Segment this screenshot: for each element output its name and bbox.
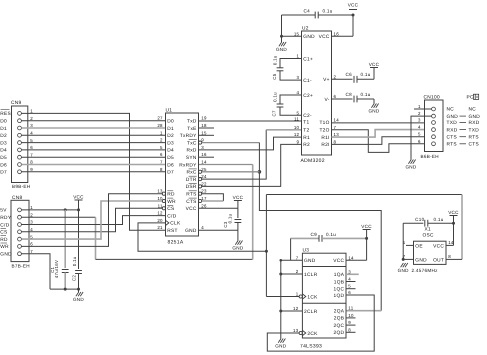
svg-text:23: 23 (201, 189, 207, 194)
svg-text:74LS393: 74LS393 (300, 344, 322, 350)
svg-text:0.1u: 0.1u (323, 9, 333, 14)
svg-text:RST: RST (167, 228, 178, 234)
svg-text:5: 5 (30, 138, 33, 143)
svg-text:0.1u: 0.1u (326, 232, 336, 237)
svg-text:D0: D0 (167, 119, 174, 125)
svg-text:C8: C8 (346, 92, 353, 97)
svg-text:RXD: RXD (469, 120, 480, 126)
svg-text:VCC: VCC (73, 194, 84, 199)
svg-text:GND: GND (276, 47, 287, 52)
svg-text:5V: 5V (0, 208, 7, 214)
svg-text:C/D: C/D (0, 222, 9, 228)
svg-text:C2+: C2+ (303, 93, 313, 99)
svg-text:OE: OE (415, 243, 423, 249)
svg-text:25: 25 (201, 167, 207, 172)
svg-text:D7: D7 (167, 170, 174, 176)
svg-text:PC: PC (467, 95, 474, 101)
svg-text:DSR: DSR (186, 184, 197, 190)
svg-text:2: 2 (30, 212, 33, 217)
svg-text:0.1u: 0.1u (272, 55, 277, 65)
svg-text:2: 2 (30, 116, 33, 121)
svg-text:10: 10 (348, 313, 354, 318)
svg-text:1: 1 (296, 292, 299, 297)
svg-text:T1: T1 (303, 120, 309, 126)
svg-text:GND: GND (368, 109, 379, 114)
svg-text:5: 5 (348, 284, 351, 289)
svg-text:4: 4 (30, 227, 33, 232)
svg-text:12: 12 (294, 132, 300, 137)
svg-text:27: 27 (157, 116, 163, 121)
svg-text:DTR: DTR (186, 177, 197, 183)
svg-text:C7: C7 (271, 110, 276, 116)
svg-text:VCC: VCC (333, 258, 344, 264)
svg-text:TXD: TXD (469, 127, 480, 133)
svg-text:GND: GND (469, 114, 481, 120)
svg-text:D2: D2 (167, 133, 174, 139)
svg-text:VCC: VCC (348, 3, 359, 8)
svg-text:TxRDY: TxRDY (180, 133, 197, 139)
svg-text:U2: U2 (302, 26, 309, 32)
svg-text:WR: WR (167, 199, 176, 205)
svg-text:CS: CS (0, 230, 7, 236)
svg-text:15: 15 (201, 130, 207, 135)
svg-text:0.1u: 0.1u (361, 72, 371, 77)
svg-text:OSC: OSC (423, 233, 435, 239)
svg-text:5: 5 (160, 145, 163, 150)
svg-text:20: 20 (157, 218, 163, 223)
svg-text:D1: D1 (0, 126, 7, 132)
svg-text:U1: U1 (166, 108, 173, 114)
svg-text:24: 24 (201, 174, 207, 179)
svg-text:RD: RD (167, 192, 175, 198)
svg-text:CLK: CLK (170, 221, 181, 227)
svg-text:0.1u: 0.1u (228, 213, 233, 223)
svg-text:1: 1 (418, 104, 421, 109)
svg-text:D4: D4 (0, 148, 7, 154)
svg-text:0.1u: 0.1u (361, 92, 371, 97)
svg-text:6: 6 (30, 145, 33, 150)
svg-text:2CLR: 2CLR (304, 309, 318, 315)
svg-text:7: 7 (30, 152, 33, 157)
svg-text:R1I: R1I (321, 135, 329, 141)
svg-text:3: 3 (297, 75, 300, 80)
svg-text:D3: D3 (0, 140, 7, 146)
svg-text:GND: GND (415, 257, 427, 263)
svg-text:RxC: RxC (186, 170, 196, 176)
svg-text:1CK: 1CK (307, 294, 318, 300)
svg-text:16: 16 (334, 31, 340, 36)
svg-text:1CLR: 1CLR (304, 272, 318, 278)
svg-text:CN100: CN100 (424, 95, 440, 101)
svg-text:16: 16 (201, 152, 207, 157)
svg-text:T1O: T1O (319, 120, 329, 126)
svg-text:3: 3 (201, 145, 204, 150)
svg-text:VCC: VCC (448, 210, 459, 215)
svg-text:2.4576MHz: 2.4576MHz (412, 268, 439, 273)
svg-text:1: 1 (297, 54, 300, 59)
svg-text:VCC: VCC (186, 206, 197, 212)
svg-text:6: 6 (334, 94, 337, 99)
svg-text:VCC: VCC (361, 224, 372, 229)
svg-text:RTS: RTS (469, 134, 479, 140)
svg-text:V+: V+ (323, 77, 330, 83)
svg-text:B9B-EH: B9B-EH (12, 184, 30, 189)
svg-text:15: 15 (294, 31, 300, 36)
svg-text:2: 2 (160, 138, 163, 143)
svg-text:D7: D7 (0, 170, 7, 176)
svg-text:NC: NC (447, 107, 455, 113)
svg-text:CTS: CTS (469, 142, 480, 148)
svg-text:5: 5 (418, 132, 421, 137)
svg-text:RTS: RTS (186, 192, 196, 198)
svg-text:10: 10 (294, 125, 300, 130)
svg-text:GND: GND (447, 114, 459, 120)
svg-text:VCC: VCC (433, 243, 444, 249)
svg-text:8: 8 (160, 167, 163, 172)
svg-text:R2I: R2I (321, 142, 329, 148)
svg-text:1: 1 (30, 109, 33, 114)
svg-text:1QB: 1QB (334, 279, 345, 285)
svg-text:3: 3 (418, 118, 421, 123)
svg-text:GND: GND (275, 344, 286, 349)
svg-text:GND: GND (398, 268, 409, 273)
svg-text:R2: R2 (303, 142, 310, 148)
svg-text:8: 8 (448, 254, 451, 259)
svg-text:D0: D0 (0, 119, 7, 125)
svg-text:12: 12 (293, 306, 299, 311)
svg-text:1QC: 1QC (334, 287, 345, 293)
svg-text:4: 4 (348, 277, 351, 282)
svg-text:7: 7 (334, 125, 337, 130)
svg-text:2: 2 (334, 74, 337, 79)
svg-text:R1: R1 (303, 135, 310, 141)
svg-text:C6: C6 (346, 72, 353, 77)
svg-text:ADM3202: ADM3202 (301, 158, 325, 164)
svg-text:D5: D5 (167, 155, 174, 161)
svg-text:D6: D6 (167, 162, 174, 168)
svg-text:2QA: 2QA (334, 309, 345, 315)
svg-text:17: 17 (201, 196, 207, 201)
svg-text:GND: GND (304, 258, 316, 264)
svg-text:4: 4 (30, 131, 33, 136)
svg-text:21: 21 (157, 225, 163, 230)
svg-text:C4: C4 (304, 9, 311, 14)
svg-text:C2-: C2- (303, 113, 312, 119)
svg-text:2: 2 (296, 269, 299, 274)
svg-text:6: 6 (418, 139, 421, 144)
svg-text:12: 12 (157, 211, 163, 216)
svg-text:1QD: 1QD (334, 293, 345, 299)
svg-text:VCC: VCC (233, 195, 244, 200)
svg-text:14: 14 (348, 255, 354, 260)
svg-text:WR: WR (0, 244, 9, 250)
svg-text:14: 14 (201, 160, 207, 165)
svg-text:CN9: CN9 (11, 100, 22, 106)
svg-text:GND: GND (405, 165, 416, 170)
svg-text:6: 6 (30, 242, 33, 247)
svg-text:7: 7 (30, 249, 33, 254)
svg-text:8251A: 8251A (168, 240, 184, 246)
svg-text:RXD: RXD (447, 127, 458, 133)
svg-text:D4: D4 (167, 148, 174, 154)
svg-text:4: 4 (201, 225, 204, 230)
svg-text:18: 18 (201, 123, 207, 128)
svg-text:D5: D5 (0, 155, 7, 161)
svg-text:22: 22 (201, 181, 207, 186)
svg-text:3: 3 (30, 220, 33, 225)
svg-text:RES: RES (0, 111, 11, 117)
svg-text:5: 5 (297, 110, 300, 115)
svg-text:7: 7 (160, 160, 163, 165)
svg-text:13: 13 (293, 328, 299, 333)
svg-text:TxE: TxE (187, 126, 196, 132)
svg-text:D6: D6 (0, 162, 7, 168)
svg-text:VCC: VCC (319, 34, 330, 40)
svg-text:D1: D1 (167, 126, 174, 132)
svg-text:11: 11 (348, 306, 353, 311)
svg-text:9: 9 (297, 139, 300, 144)
svg-text:GND: GND (73, 297, 84, 302)
svg-text:6: 6 (348, 290, 351, 295)
svg-text:8: 8 (334, 139, 337, 144)
svg-text:SYN: SYN (186, 155, 197, 161)
svg-text:0.1u: 0.1u (72, 256, 77, 266)
svg-text:RxD: RxD (186, 148, 196, 154)
svg-text:D3: D3 (167, 140, 174, 146)
svg-text:0.1u: 0.1u (434, 217, 444, 222)
svg-text:OUT: OUT (433, 257, 444, 263)
svg-text:7: 7 (296, 255, 299, 260)
svg-text:2QD: 2QD (334, 330, 345, 336)
svg-text:1: 1 (30, 205, 33, 210)
svg-text:4: 4 (418, 125, 421, 130)
svg-text:26: 26 (201, 203, 207, 208)
svg-text:2: 2 (418, 111, 421, 116)
svg-text:TxC: TxC (187, 140, 197, 146)
svg-text:B7B-EH: B7B-EH (12, 264, 30, 269)
svg-text:4: 4 (297, 90, 300, 95)
svg-text:CS: CS (167, 206, 174, 212)
svg-text:6: 6 (160, 152, 163, 157)
svg-text:C5: C5 (272, 73, 277, 79)
svg-text:2QB: 2QB (334, 316, 345, 322)
svg-text:9: 9 (30, 167, 33, 172)
svg-text:0.1u: 0.1u (272, 92, 277, 102)
svg-text:TXD: TXD (447, 120, 458, 126)
svg-text:1: 1 (160, 130, 163, 135)
svg-text:GND: GND (185, 228, 197, 234)
svg-text:C3: C3 (223, 221, 228, 227)
svg-text:C1+: C1+ (303, 56, 313, 62)
svg-text:T2O: T2O (319, 128, 329, 134)
svg-text:1QA: 1QA (334, 272, 345, 278)
svg-text:19: 19 (201, 116, 207, 121)
svg-text:9: 9 (348, 320, 351, 325)
svg-text:B6B-EH: B6B-EH (421, 154, 439, 159)
svg-text:RDY: RDY (0, 215, 12, 221)
svg-text:CTS: CTS (447, 134, 458, 140)
svg-text:CTS: CTS (186, 199, 197, 205)
svg-text:VCC: VCC (369, 62, 380, 67)
svg-text:U3: U3 (303, 248, 310, 254)
svg-text:2CK: 2CK (307, 331, 318, 337)
svg-text:C/D: C/D (167, 213, 176, 219)
svg-text:GND: GND (303, 34, 315, 40)
svg-text:14: 14 (334, 117, 340, 122)
svg-text:C9: C9 (311, 232, 318, 237)
svg-text:RD: RD (0, 237, 8, 243)
svg-text:2QC: 2QC (334, 323, 345, 329)
svg-text:TxD: TxD (187, 119, 197, 125)
svg-text:RTS: RTS (447, 142, 457, 148)
svg-text:C1-: C1- (303, 78, 312, 84)
svg-text:GND: GND (0, 252, 12, 258)
svg-text:T2: T2 (303, 128, 309, 134)
svg-text:D2: D2 (0, 133, 7, 139)
svg-text:28: 28 (157, 123, 163, 128)
svg-text:X1: X1 (425, 227, 431, 233)
svg-text:8: 8 (348, 327, 351, 332)
svg-text:47u/16V: 47u/16V (54, 260, 59, 278)
svg-text:CN8: CN8 (12, 195, 23, 201)
svg-text:NC: NC (469, 107, 477, 113)
svg-text:11: 11 (294, 117, 299, 122)
svg-text:C10: C10 (415, 217, 424, 222)
svg-text:V-: V- (325, 97, 330, 103)
svg-text:C2: C2 (72, 275, 77, 281)
svg-text:GND: GND (232, 246, 243, 251)
svg-text:RxRDY: RxRDY (179, 162, 197, 168)
